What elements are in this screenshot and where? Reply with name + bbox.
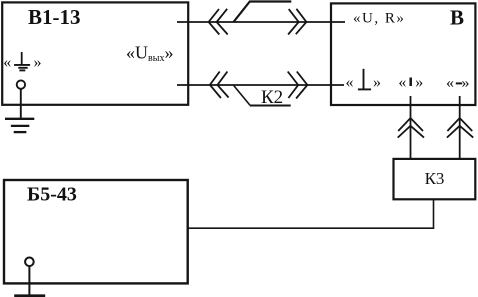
voltmeter box V (331, 3, 475, 105)
junction box K3 (394, 159, 476, 199)
wire from terminal to ground (28, 266, 30, 295)
svg-text:»: » (34, 54, 42, 71)
svg-text:»: » (462, 74, 470, 91)
svg-text:Б5-43: Б5-43 (27, 184, 77, 206)
svg-text:«: « (3, 54, 11, 71)
connector chevrons right (bottom cable) (288, 72, 299, 99)
svg-text:«: « (446, 74, 454, 91)
connector chevrons right (top cable) (288, 9, 299, 34)
svg-text:В: В (450, 5, 464, 29)
connector chevrons left (top cable) (209, 9, 220, 35)
wire from (+) terminal down to K3 (410, 96, 412, 159)
connector chevrons left (bottom cable) (210, 72, 221, 99)
ground symbol below B1-13 (5, 118, 34, 120)
svg-text:«: « (398, 74, 406, 91)
power supply box B5-43 (4, 180, 188, 283)
terminal circle of B1-13 (17, 80, 25, 88)
ground symbol below B5-43 (clipped) (14, 294, 45, 297)
wire: top cable line (177, 21, 345, 23)
svg-text:»: » (373, 74, 381, 91)
up-tack ground pin symbol (363, 69, 365, 89)
wire from terminal to ground (20, 89, 22, 119)
svg-text:»: » (415, 74, 423, 91)
earth symbol inside B1-13 (21, 52, 23, 65)
wire: bottom cable line (177, 84, 344, 86)
cable flag K2 (234, 86, 250, 106)
cable flag K1 (unlabelled, top) (234, 2, 292, 23)
connector chevrons on (+) wire (398, 118, 423, 131)
wire from (-) terminal down to K3 (459, 96, 461, 159)
svg-text:В1-13: В1-13 (28, 5, 81, 29)
connector chevrons on (-) wire (447, 118, 472, 131)
wire from K3 to B5-43 (188, 199, 434, 228)
svg-text:К2: К2 (261, 87, 283, 108)
svg-text:К3: К3 (425, 169, 445, 188)
svg-text:«U, R»: «U, R» (353, 11, 405, 27)
svg-text:«: « (346, 74, 354, 91)
terminal circle of B5-43 (25, 258, 34, 267)
instrument box B1-13 (2, 2, 188, 104)
